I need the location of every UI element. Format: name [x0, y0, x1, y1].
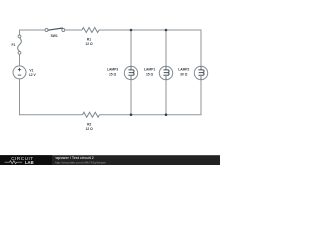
watermark logo box [0, 155, 52, 165]
wire branch 2 bottom [165, 80, 167, 115]
svg-text:F1: F1 [12, 43, 16, 47]
fuse F1 [12, 35, 22, 54]
svg-text:LAMP2: LAMP2 [178, 68, 189, 72]
wire top-left to switch [20, 29, 45, 31]
svg-text:15 Ω: 15 Ω [109, 72, 117, 76]
svg-text:15 Ω: 15 Ω [146, 72, 154, 76]
wire R2 to bottom-right corner [100, 114, 202, 116]
lamp LAMP2 [178, 66, 207, 79]
svg-text:http://circuitlab.com/c/8fk742: http://circuitlab.com/c/8fk742g/bdqwe [55, 160, 106, 164]
watermark bar [0, 155, 220, 165]
svg-text:SW1: SW1 [51, 34, 58, 38]
battery V1 [13, 66, 36, 79]
svg-text:LAB: LAB [25, 160, 34, 165]
svg-text:12 Ω: 12 Ω [85, 42, 93, 46]
resistor R2 [83, 112, 100, 131]
resistor R1 [82, 28, 99, 46]
wire branch 1 bottom [130, 80, 132, 115]
svg-text:30 Ω: 30 Ω [180, 72, 188, 76]
svg-text:LAMP3: LAMP3 [107, 68, 118, 72]
svg-text:R1: R1 [87, 38, 91, 42]
wire R1 to top-right corner [99, 29, 201, 31]
svg-text:V1: V1 [29, 68, 33, 72]
wire left rail top to fuse [19, 30, 21, 36]
lamp LAMP3 [107, 66, 138, 79]
svg-text:LAMP1: LAMP1 [144, 68, 155, 72]
switch SW1 [45, 28, 65, 38]
wire battery to bottom-left corner [19, 79, 21, 115]
watermark logo resistor zigzag [5, 161, 23, 164]
svg-text:12 V: 12 V [29, 73, 37, 77]
svg-text:wpower / Test circuit 2: wpower / Test circuit 2 [55, 156, 94, 160]
node junction bottom branch1 [130, 113, 133, 116]
wire switch to R1 [65, 29, 82, 31]
node junction top branch1 [130, 29, 133, 32]
node junction top branch2 [165, 29, 168, 32]
wire right rail top [200, 30, 202, 67]
svg-text:12 Ω: 12 Ω [86, 127, 94, 131]
wire bottom-left to R2 [19, 114, 83, 116]
node junction bottom branch2 [165, 113, 168, 116]
wire right rail bottom [200, 80, 202, 116]
wire branch 2 top [165, 30, 167, 66]
wire branch 1 top [130, 30, 132, 66]
svg-text:R2: R2 [87, 123, 91, 127]
lamp LAMP1 [144, 66, 173, 79]
wire fuse to battery [19, 54, 21, 66]
